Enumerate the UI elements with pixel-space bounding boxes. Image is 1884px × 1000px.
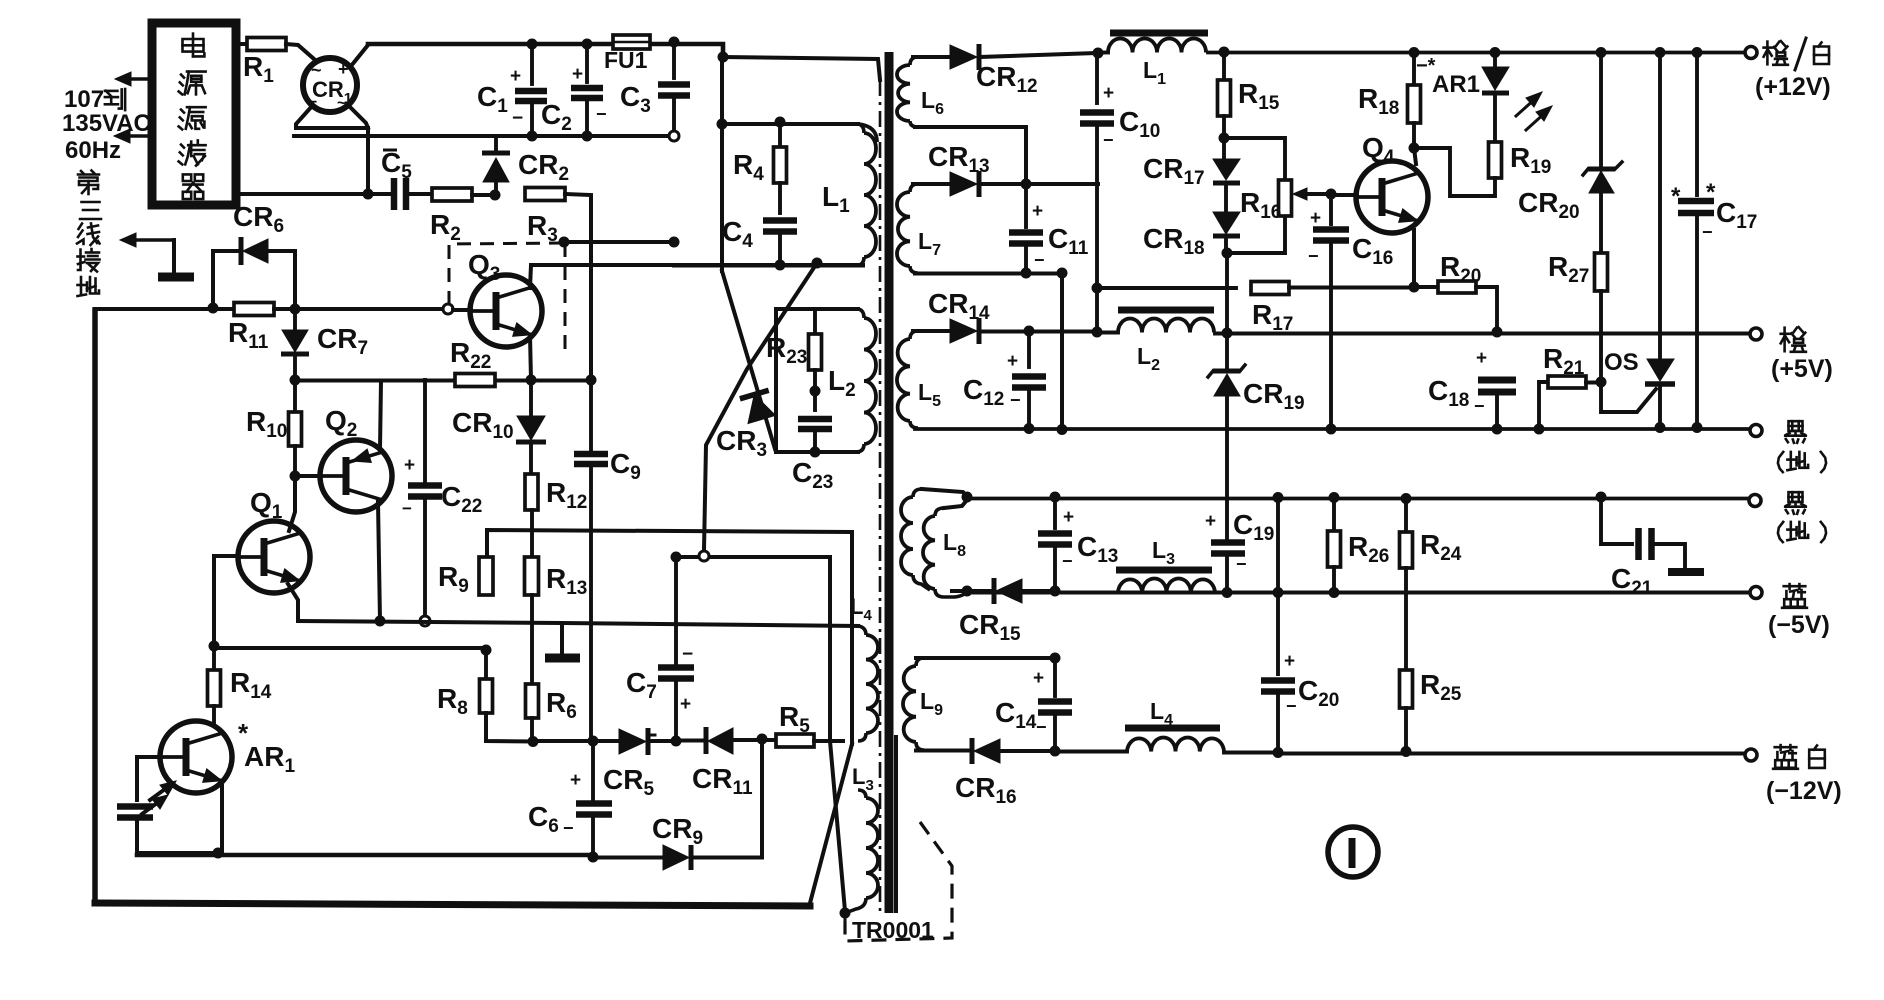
svg-text:OS: OS [1604,349,1639,376]
node R6 bottom [528,736,539,747]
transistor Q3 [453,249,542,347]
capacitor C18 [1428,348,1516,427]
resistor R21 [1534,343,1602,435]
node R4 rail [717,119,728,130]
node diagB start [812,258,823,269]
L2 box left [776,309,858,452]
node CR19 +5V [1222,328,1233,339]
wire filter box to C5 [236,192,366,196]
node R18 bottom / Q4 collector [1409,143,1420,165]
diode CR17 (down) [1143,153,1240,189]
node at bridge/C5 line [363,189,374,200]
+12V top rail [1208,51,1750,55]
winding L8 outer [901,489,930,590]
resistor R22 [450,337,495,387]
svg-text:+: + [1310,208,1321,229]
capacitor C10 [1080,53,1160,288]
svg-text:*: * [1671,183,1681,210]
third-wire ground arrow [120,233,174,273]
transistor Q4 [1356,132,1428,233]
net-B line (C3 node to L3p) [676,557,830,741]
winding L8 inner [923,508,967,597]
resistor R1 [238,38,314,88]
L8 top wire [922,489,967,508]
diode CR2 [482,136,569,195]
node R15 bottom [1219,133,1230,144]
filter choke L4 [1055,698,1278,753]
wire dashed node to C3 vertical [564,240,674,244]
diode CR10 [452,387,546,443]
node R8 junction on Q1-base line [214,645,492,656]
svg-text:(−12V): (−12V) [1766,777,1842,805]
node C19 bottom [1222,587,1233,598]
diode CR9 [593,813,762,870]
diode CR15 [952,578,1055,645]
capacitor C21 [1601,497,1704,599]
capacitor C6 [528,742,612,855]
filter choke L3 [1055,537,1227,593]
svg-text:−: − [1474,396,1485,416]
L7 bottom wire [915,268,1062,279]
node CR7 top [290,304,301,315]
bridge negative rail under caps [294,134,674,138]
node C21 tap [1596,492,1607,503]
label 蓝白 -12V [1766,745,1842,805]
wire C9 vertical [589,380,593,742]
svg-text:−: − [402,499,412,518]
resistor R15 [1218,52,1280,157]
capacitor C22 [402,455,482,616]
resistor R5 [762,701,843,747]
svg-text:AR1: AR1 [1432,71,1480,98]
net-B slant to L3p bottom [830,741,845,911]
svg-text:107: 107 [64,86,104,113]
wire Q4 emitter [1412,230,1416,287]
diode CR5 [603,728,676,800]
diode CR12 [913,44,1098,97]
svg-text:FU1: FU1 [604,47,648,73]
winding L4 (feedback) [850,594,878,741]
wire Q3 emitter [530,335,531,380]
capacitor C23 [792,419,833,493]
zener CR19 [1208,253,1305,414]
+5V rail [1215,332,1750,336]
diode CR6 loop [213,201,295,309]
resistor R3 [525,188,591,381]
resistor R13 [525,557,588,599]
node at C3 vertical y242 [669,237,680,248]
capacitor C8 (photo cap, unlabeled) [117,807,218,854]
bridge output diagonals [296,105,368,136]
node CR15/C13 [1050,586,1061,597]
ground rail 2 (black) [967,497,1753,501]
wire C22 drop [423,380,427,482]
node top-rail corner [718,52,729,63]
Q3-collector / L1 bottom line [674,264,863,268]
open node C3 bottom [669,131,679,141]
diode CR7 [281,309,368,380]
node CR6 left [208,303,219,314]
R4/L1 top rail [722,124,877,142]
svg-text:−: − [1286,696,1297,716]
resistor R6 [526,595,577,741]
node top rail at C3 [669,37,680,48]
transistor Q2 with R10 [246,380,302,476]
node dashed box top [559,237,570,248]
diode CR16 [916,738,1055,808]
svg-text:(+12V): (+12V) [1755,73,1831,101]
diode CR13 [913,141,1098,197]
resistor R4 [733,124,787,213]
winding L3 (feedback) [848,764,878,912]
svg-text:−: − [1036,717,1047,737]
svg-text:+: + [510,66,521,87]
svg-text:−: − [596,104,607,124]
third-wire ground symbol [158,273,194,282]
node CR14/C12 [1024,326,1035,337]
node CR7 bottom [290,375,301,386]
svg-text:TR0001: TR0001 [852,917,934,943]
label 蓝 -5V [1768,584,1830,639]
node Q4 emitter/R20 [1409,282,1420,293]
svg-text:(−5V): (−5V) [1768,611,1830,639]
capacitor C14 [995,658,1072,751]
net-A slant to border [810,744,852,903]
AR1 photo arrows [142,781,176,814]
R17 line [1092,283,1237,333]
node CR11/R5/CR9 [757,734,768,745]
node net-B at C7 vertical [671,552,682,563]
node C18 top / R20 [1492,327,1503,338]
node R22 line at C9 vertical [586,375,597,386]
capacitor C20 [1261,651,1339,752]
C20 vertical [1273,492,1284,674]
terminal gnd1 [1750,425,1762,437]
resistor R19 [1414,142,1551,196]
node Q1 base / R14 [209,641,220,652]
terminal +5V [1750,328,1762,340]
fuse FU1 [604,35,650,73]
node R21/R27/OS gate [1596,377,1607,388]
node C1 bottom [527,131,538,142]
diagonal A with CR3 [722,271,775,449]
capacitor C19 [1205,396,1274,592]
capacitor C11 [1009,184,1089,273]
node CR13/C11 [1021,179,1032,190]
capacitor C3 [620,42,690,131]
label 黑 地 1 [1778,421,1826,472]
svg-text:+: + [1033,668,1044,689]
wire R23 from top [813,309,817,334]
node C13 top [1050,492,1061,503]
svg-text:60Hz: 60Hz [65,137,121,164]
vertical x=722 [720,57,724,271]
wire Q1 collector [289,476,295,531]
wire Q1 base elbow [214,556,238,645]
node Q4 base / C16 [1326,189,1337,200]
ground rail 1 (black) [1062,427,1750,431]
svg-text:135: 135 [62,110,102,137]
resistor R8 [437,652,533,742]
line3 Q1 emitter long rail [288,584,858,626]
winding L2 (primary) [828,309,876,452]
node C16 bottom [1326,424,1337,435]
svg-text:−: − [1062,551,1073,571]
capacitor C17 [1671,47,1757,427]
label 橙 +5V [1771,327,1833,383]
node Q2 base [290,471,301,482]
label 107到135VAC 60Hz [62,86,151,164]
capacitor C13 [1038,497,1118,591]
open node Q3 base [443,304,453,314]
-5V rail [967,591,1750,595]
svg-text:+: + [1205,511,1216,532]
node L3p bottom [840,908,851,919]
label 第三线接地 (third wire ground) [77,171,101,297]
terminal -12V [1745,749,1757,761]
resistor R23 [766,332,822,370]
node R2-R3/CR2 [490,190,501,201]
terminal gnd2 [1749,495,1761,507]
label 黑 地 2 [1778,492,1826,542]
resistor R20 [1414,251,1497,332]
svg-text:−: − [1103,130,1114,150]
opto transistor AR1 (bottom) [160,718,295,793]
svg-text:−: − [1236,554,1247,574]
wire Q2 collector elbow [380,381,381,449]
node top rail at C2 [582,39,593,50]
diode CR3 [716,390,775,461]
svg-text:(+5V): (+5V) [1771,355,1833,383]
open node net-B [699,551,709,561]
node R13 top tee [530,530,534,557]
resistor R16 (adj) [1240,180,1331,223]
-12V rail [1273,747,1748,758]
node L8 top [962,492,973,503]
resistor R26 [1328,492,1390,598]
node top rail at C1 [527,39,538,50]
diode CR11 [676,727,762,799]
wire Q2 emitter down [378,502,380,621]
svg-text:VAC: VAC [102,110,151,137]
top rail (+310V) [368,44,723,57]
svg-text:+: + [1476,348,1487,369]
capacitor C7 [626,560,694,741]
capacitor C1 [477,44,547,136]
wire AR1 emitter [220,786,224,852]
resistor R27 [1548,191,1608,381]
node CR12 out / L1f [1093,48,1104,59]
resistor R14 [208,652,272,722]
node Q3 emitter / CR10 [526,375,537,386]
wire top rail to xfmr [723,57,880,80]
winding L7 [897,184,941,273]
node L1f right [1219,47,1230,58]
open node C22 at Q1 emitter line [420,616,430,626]
wire CR9 branch [760,739,764,857]
wire AR1 base cap [137,757,160,800]
node CR18 bottom [1222,248,1233,259]
svg-text:−: − [1702,222,1713,242]
resistor R17 [1251,282,1414,336]
wire C11-C12 vertical [1057,268,1068,431]
node C6 bottom [588,852,599,863]
winding L5 [897,331,941,428]
svg-text:+: + [1063,507,1074,528]
svg-text:−: − [563,818,574,838]
R16 bottom elbow [1227,216,1285,253]
svg-text:+: + [338,59,349,79]
R16 top elbow [1224,138,1285,180]
capacitor C9 [574,448,641,484]
filter choke L2 [1099,310,1214,374]
svg-text:*: * [1706,179,1716,206]
L6 bottom wire [915,127,1026,180]
CR5 line [533,739,617,743]
label 橙/白 +12V [1755,38,1831,101]
node C6 top at CR5 line [588,736,599,747]
node C17 gnd [1692,422,1703,433]
terminal +12V [1745,47,1757,59]
LED AR1 light arrows [1516,92,1552,130]
node CR16/C14 [1050,746,1061,757]
ground symbol on line3 [545,623,580,658]
svg-text:−: − [1010,390,1021,410]
svg-text:+: + [680,694,691,715]
svg-text:+: + [572,64,583,85]
zener CR20 [1518,47,1622,223]
diode CR14 [913,288,1098,344]
wire bridge + output down to C5/R2 line [366,128,370,194]
svg-text:+: + [1007,351,1018,372]
circled numeral 1 [1328,827,1378,877]
node R18 top rail [1409,47,1420,58]
node C7 bottom on CR5 line [671,736,682,747]
svg-text:+: + [1032,201,1043,222]
capacitor C4 [722,216,797,265]
core dash centerline [879,80,882,912]
capacitor C16 [1308,194,1393,428]
terminal -5V [1750,587,1762,599]
node C2 bottom [582,131,593,142]
node C10 line at +5V [1092,327,1103,338]
node AR1 emitter on bottom line [213,848,224,859]
bridge rectifier CR1 [303,45,368,112]
capacitor C12 [963,331,1046,428]
outer border bottom [95,903,810,906]
L4p top entry from line3 [0,0,1,1]
node AR1 top rail [1490,47,1501,58]
resistor R11 [228,303,448,354]
node C18 bottom [1492,424,1503,435]
wire Q3 collector [530,265,863,288]
R11 bias rail [95,309,234,903]
resistor R9 [438,557,493,597]
resistor R25 [1400,669,1462,757]
power line filter module box [152,23,236,205]
diode CR18 (down) [1143,184,1240,259]
node Q2 emitter at line3 [375,616,386,627]
resistor R2 [406,188,495,245]
thyristor OS [1601,47,1675,427]
winding L1 (primary) [822,124,876,266]
AC input arrow lower [114,129,152,143]
svg-text:+: + [1284,651,1295,672]
capacitor C2 [541,44,607,136]
svg-text:−: − [682,644,693,665]
core bar [889,52,896,913]
label TR0001 [852,917,934,943]
L9 top wire [916,653,1061,664]
TR0001 dashed outline [845,822,952,941]
svg-text:−: − [1308,246,1319,266]
node OS cathode gnd [1655,422,1666,433]
dashed box around Q3 [449,243,565,356]
node R4 top [775,117,786,128]
resistor R24 [1400,493,1462,670]
node L8 bottom [962,586,973,597]
capacitor C5 [368,147,412,210]
filter choke L1 with core bar [1099,33,1208,88]
diagonal B [704,263,817,550]
wire Q4 base [1331,193,1357,197]
L8 bottom wire [0,0,1,1]
svg-text:−: − [1034,250,1045,270]
svg-text:+: + [1103,83,1114,104]
L5 bottom / ground rail 1 left part [915,423,1068,435]
node R23 bottom [810,370,821,410]
net-A R9/R12/R13 node line [487,530,852,744]
transistor Q1 [238,487,310,593]
node C13-5V [0,0,1,1]
transistor Q2 [301,405,392,512]
winding L9 [903,658,943,750]
svg-text:−: − [512,108,523,129]
svg-text:+: + [570,770,581,791]
winding L6 [897,57,944,127]
resistor R12 [525,442,587,530]
AC input arrow upper [115,72,152,86]
L2 box bottom [776,447,858,458]
svg-text:+: + [404,455,415,476]
LED AR1 (top) [1416,52,1509,142]
resistor R18 [1358,52,1421,148]
node C4 bottom [775,260,786,271]
AR1/C6 bottom rail [137,853,593,858]
control line CR7 to R22 to C9-line [295,379,591,383]
